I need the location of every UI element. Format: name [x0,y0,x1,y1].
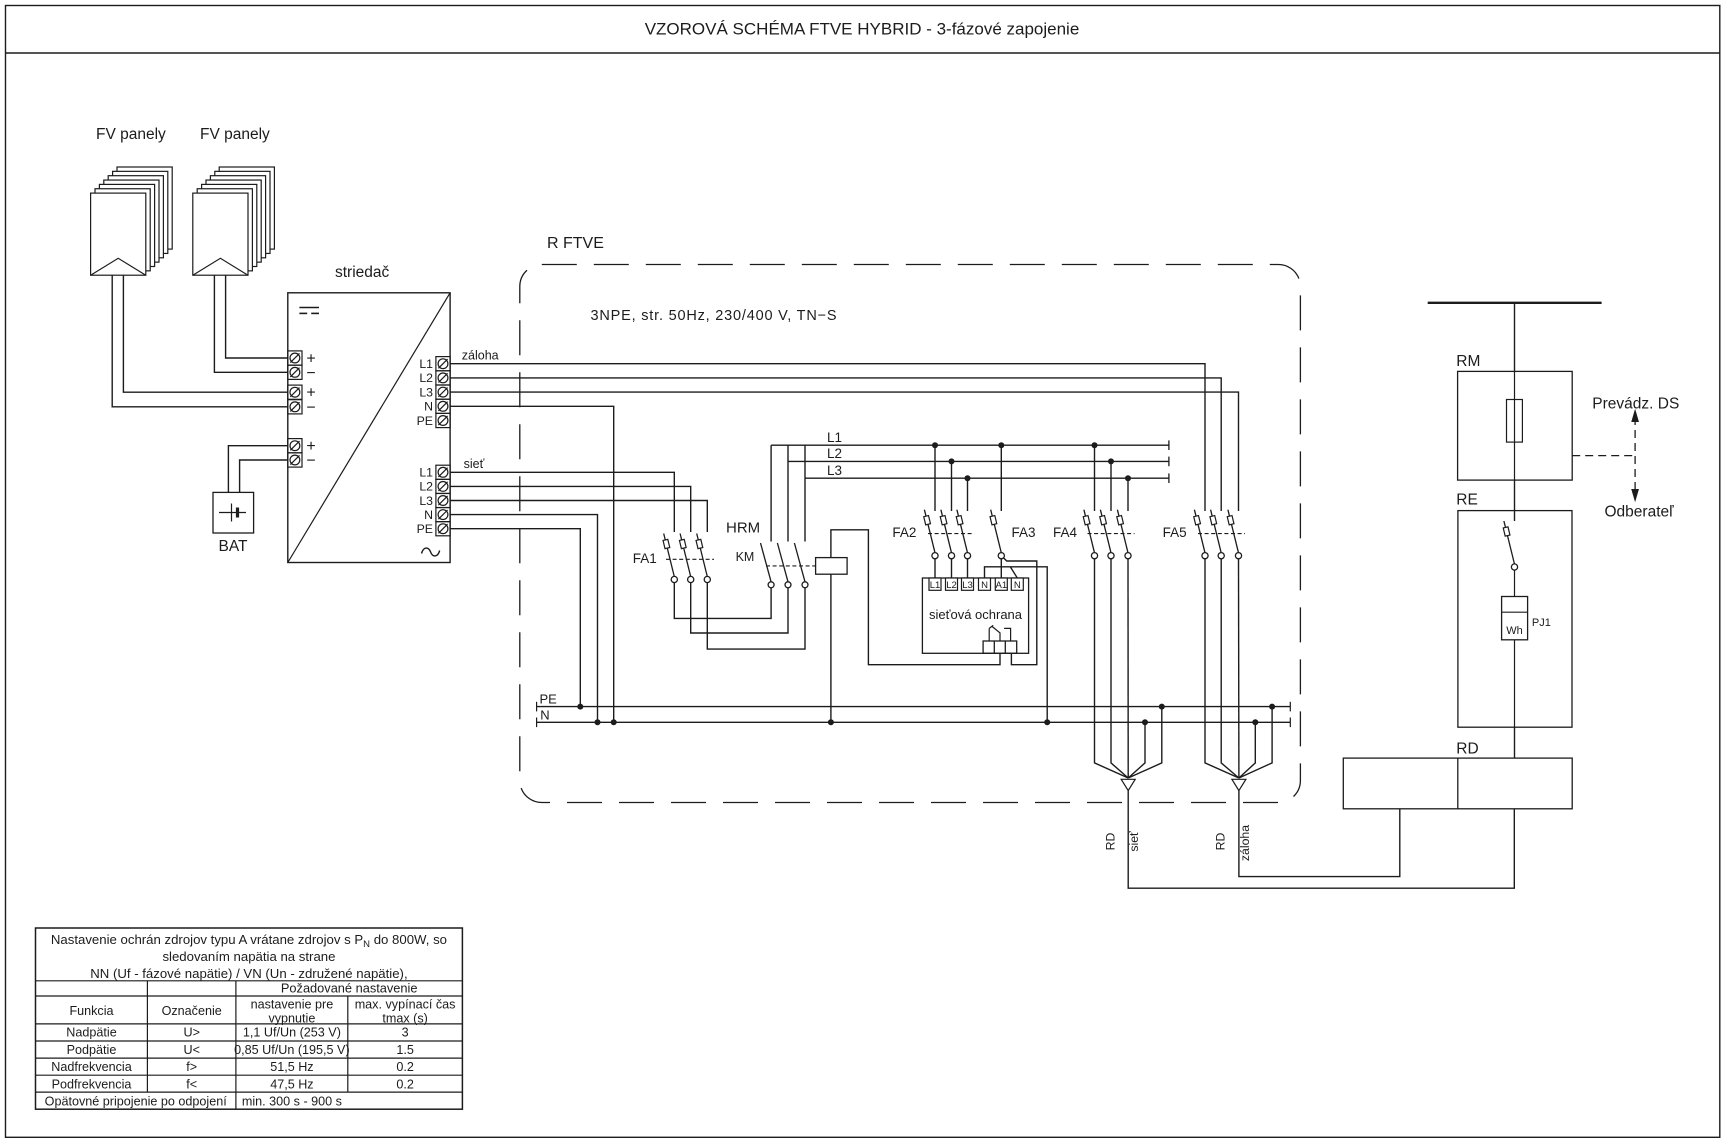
contactor KM (HRM) [726,445,816,588]
svg-text:FA3: FA3 [1012,525,1036,540]
relay N jumper and N-bus connection [985,567,1051,726]
svg-text:3NPE, str. 50Hz, 230/400 V, TN: 3NPE, str. 50Hz, 230/400 V, TN−S [591,308,838,324]
svg-text:Nadfrekvencia: Nadfrekvencia [51,1060,132,1074]
network protection relay sieťová ochrana [922,578,1028,653]
title: VZOROVÁ SCHÉMA FTVE HYBRID - 3-fázové zapojenie [645,20,1080,39]
breaker FA4 (3-pole) feeder RD sieť [1053,442,1135,559]
svg-text:f<: f< [186,1077,197,1091]
svg-text:L3: L3 [419,385,433,399]
svg-text:PE: PE [417,522,433,536]
svg-text:RD: RD [1214,833,1228,851]
svg-text:0,85 Uf/Un (195,5 V): 0,85 Uf/Un (195,5 V) [234,1043,350,1057]
svg-text:N: N [540,708,549,723]
wire KM coil A1 from relay common contact [831,530,1000,665]
svg-text:L1: L1 [419,357,433,371]
inverter AC terminals záloha L1 L2 L3 N PE [417,349,499,428]
svg-text:L2: L2 [827,446,842,461]
inverter AC symbol [422,548,440,556]
boundary marker Prevádz. DS / Odberateľ [1572,395,1679,520]
svg-text:sledovaním napätia na strane: sledovaním napätia na strane [162,949,335,964]
svg-text:RE: RE [1456,492,1478,509]
enclosure R FTVE (dashed) [520,235,1301,803]
svg-text:Nadpätie: Nadpätie [66,1026,116,1040]
RE main switch [1503,511,1517,597]
PV array 1 (FV panely) [91,126,173,275]
wire sieť L1 to FA1 [450,472,674,532]
svg-text:FA4: FA4 [1053,525,1078,540]
wire sieť N to N bus [450,515,600,726]
svg-text:3: 3 [402,1026,409,1040]
PE bus [537,692,1291,712]
svg-text:L1: L1 [827,430,842,445]
wire BAT plus [228,446,287,493]
settings table (source protection settings) [36,928,463,1109]
busbar L3 [805,463,1169,483]
svg-text:Funkcia: Funkcia [69,1004,113,1018]
wire PV2 plus to inverter [226,275,288,358]
inverter AC terminals sieť L1 L2 L3 N PE [417,457,485,536]
wire KM coil A2 to N bus [828,574,834,725]
svg-text:PE: PE [417,414,433,428]
svg-text:striedač: striedač [335,264,390,281]
energy meter PJ1 (Wh) [1502,597,1551,728]
wire BAT minus [240,460,288,492]
svg-text:PJ1: PJ1 [1532,617,1551,629]
breaker FA5 (3-pole) feeder RD záloha [1163,510,1245,559]
svg-text:Podfrekvencia: Podfrekvencia [52,1077,132,1091]
breaker FA1 (3-pole) [633,534,714,583]
breaker FA2 (3-pole) feeding relay [892,442,974,578]
svg-text:51,5 Hz: 51,5 Hz [270,1060,313,1074]
svg-text:N: N [981,580,988,591]
svg-text:−: − [306,399,315,416]
svg-text:Požadované nastavenie: Požadované nastavenie [281,981,418,996]
svg-text:RD: RD [1104,833,1118,851]
cabinet RE [1456,492,1572,728]
svg-text:sieť: sieť [1127,831,1141,852]
svg-text:L2: L2 [946,580,957,591]
svg-text:FV panely: FV panely [200,126,270,143]
PV array 2 (FV panely) [193,126,275,275]
svg-text:A1: A1 [995,580,1007,591]
svg-text:Prevádz. DS: Prevádz. DS [1592,395,1679,412]
inverter DC symbol [299,308,319,314]
wire sieť L2 to FA1 [450,486,691,532]
wire FA3 to relay NO contact [1003,558,1036,665]
battery BAT [213,492,254,555]
svg-text:NN (Uf - fázové napätie) / VN: NN (Uf - fázové napätie) / VN (Un - zdru… [90,966,407,981]
svg-text:R FTVE: R FTVE [547,235,604,252]
inverter striedač box [288,264,450,563]
svg-text:f>: f> [186,1060,197,1074]
feeder cable RD sieť (converging arrow) [1095,559,1515,889]
svg-text:min. 300 s - 900 s: min. 300 s - 900 s [242,1094,342,1108]
svg-text:N: N [1014,580,1021,591]
svg-text:max. vypínací čas: max. vypínací čas [355,998,456,1012]
svg-text:L1: L1 [419,466,433,480]
svg-text:Odberateľ: Odberateľ [1605,504,1675,521]
svg-text:PE: PE [540,692,558,707]
svg-text:L3: L3 [419,494,433,508]
wire FA1 to KM pole3 [707,583,805,650]
svg-text:L3: L3 [962,580,973,591]
wire PV1 plus to inverter [123,275,287,392]
feeder cable RD záloha (converging arrow) [1205,559,1400,877]
inverter DC input terminals [288,351,316,470]
svg-text:HRM: HRM [726,520,760,537]
svg-text:U<: U< [183,1043,199,1057]
svg-text:tmax (s): tmax (s) [382,1012,427,1026]
note 3NPE system [591,308,838,324]
svg-text:L2: L2 [419,371,433,385]
wire FA1 to KM pole1 [674,583,771,619]
svg-text:RD: RD [1456,741,1478,758]
grid supply line [1428,303,1602,372]
svg-text:sieť: sieť [464,457,485,471]
wire záloha N to N bus [450,406,617,725]
svg-text:Podpätie: Podpätie [67,1043,117,1057]
svg-text:Opätovné pripojenie po odpojen: Opätovné pripojenie po odpojení [45,1094,228,1108]
wire RM to RE [1514,480,1516,511]
cabinet RM with fuse [1456,353,1572,480]
svg-text:VZOROVÁ SCHÉMA FTVE HYBRID - 3: VZOROVÁ SCHÉMA FTVE HYBRID - 3-fázové za… [645,20,1080,39]
svg-text:N: N [424,508,433,522]
wire záloha L2 to FA5 [450,378,1221,511]
svg-text:N: N [424,400,433,414]
svg-text:0.2: 0.2 [396,1077,414,1091]
svg-text:L3: L3 [827,463,842,478]
svg-text:0.2: 0.2 [396,1060,414,1074]
busbar L2 [788,446,1169,466]
N bus [537,708,1291,728]
svg-text:U>: U> [183,1026,199,1040]
wire RE to RD [1514,727,1516,758]
svg-text:−: − [306,453,315,470]
svg-text:vypnutie: vypnutie [268,1012,315,1026]
svg-text:L2: L2 [419,480,433,494]
svg-text:záloha: záloha [462,349,499,363]
svg-text:nastavenie pre: nastavenie pre [251,998,334,1012]
svg-text:1,1 Uf/Un (253 V): 1,1 Uf/Un (253 V) [243,1026,341,1040]
svg-text:Wh: Wh [1506,625,1523,637]
contactor KM coil [816,558,848,575]
svg-text:1.5: 1.5 [396,1043,414,1057]
svg-text:FA2: FA2 [892,525,916,540]
svg-text:sieťová ochrana: sieťová ochrana [929,607,1023,622]
relay output changeover contact [983,625,1017,653]
svg-text:FV panely: FV panely [96,126,166,143]
svg-text:FA5: FA5 [1163,525,1187,540]
breaker FA3 (1-pole) relay supply [990,442,1035,578]
svg-text:záloha: záloha [1238,825,1252,861]
svg-text:FA1: FA1 [633,551,657,566]
svg-text:L1: L1 [930,580,941,591]
wire záloha L1 to FA5 [450,364,1205,511]
wire PV2 minus to inverter [214,275,287,372]
svg-text:Označenie: Označenie [162,1004,222,1018]
cabinet RD [1343,741,1572,809]
svg-text:KM: KM [736,550,755,564]
svg-text:BAT: BAT [219,538,249,555]
wire záloha L3 to FA5 [450,392,1238,511]
wire sieť PE to PE bus [450,529,583,710]
svg-text:RM: RM [1456,353,1480,370]
wire sieť L3 to FA1 [450,501,707,533]
wire FA1 to KM pole2 [691,583,788,634]
svg-text:47,5 Hz: 47,5 Hz [270,1077,313,1091]
wire PV1 minus to inverter [112,275,288,407]
svg-text:−: − [306,365,315,382]
busbar L1 [771,430,1169,450]
